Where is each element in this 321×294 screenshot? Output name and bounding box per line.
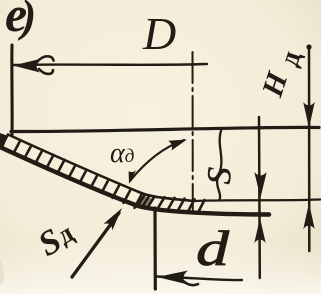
arrowhead Нд down xyxy=(303,102,315,128)
dimension line D xyxy=(13,64,207,65)
dimension line s (vertical) xyxy=(258,117,261,278)
arrowhead Нд up xyxy=(303,203,314,229)
arrowhead D left xyxy=(13,59,40,73)
arrow flourish D xyxy=(37,56,54,74)
arrowhead αд lower xyxy=(129,170,137,185)
arrowhead s up xyxy=(254,218,265,243)
svg-text:d: d xyxy=(196,221,230,277)
tip smudge at left edge xyxy=(0,133,8,148)
angle arc αд xyxy=(130,140,184,181)
hatching slant wall xyxy=(14,140,142,208)
wavy break line (s) xyxy=(217,129,221,200)
arrowhead αд right xyxy=(168,140,187,151)
cone tip closure xyxy=(1,135,8,148)
arrowhead Sд xyxy=(103,208,122,231)
svg-text:s: s xyxy=(188,165,242,186)
extension line left (diameter D) xyxy=(10,45,13,135)
bottom sheet top-surface extension line xyxy=(194,200,320,202)
junction shade blob xyxy=(138,196,152,208)
cone wall upper edge xyxy=(8,135,194,202)
extension line d left xyxy=(153,208,157,289)
svg-text:D: D xyxy=(142,8,176,59)
cone wall lower edge (thick) xyxy=(1,148,269,215)
top edge extension line (cone rim level) xyxy=(11,127,319,131)
start blob Нд xyxy=(306,44,311,49)
centerline (axis, dash-dot) xyxy=(192,52,194,212)
dimension line d xyxy=(156,277,242,281)
svg-text:е): е) xyxy=(5,0,36,42)
arrow flourish d xyxy=(181,279,198,285)
dimension line Нд (vertical) xyxy=(308,46,311,251)
arrowhead s down xyxy=(254,172,266,198)
leader Sд xyxy=(72,213,119,277)
arrowhead d left xyxy=(157,271,188,285)
hatching bottom sheet xyxy=(138,195,205,211)
paper smudge bottom-left xyxy=(0,258,4,284)
